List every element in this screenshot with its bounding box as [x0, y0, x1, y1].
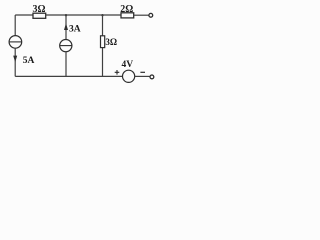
- svg-text:4V: 4V: [121, 60, 133, 70]
- terminal b open circle: [150, 75, 154, 79]
- wire R2 to terminal a: [134, 14, 149, 16]
- wire bottom horizontal: [15, 75, 122, 77]
- resistor R3 3Ω vertical box: [101, 36, 105, 48]
- wire middle branch vertical upper: [65, 15, 67, 40]
- plus sign of US: [115, 70, 120, 75]
- svg-text:3A: 3A: [69, 24, 81, 34]
- node A junction dot: [65, 14, 67, 16]
- wire right branch vertical lower: [102, 48, 104, 77]
- current source IS2 3A circle: [60, 40, 72, 52]
- svg-text:3Ω: 3Ω: [32, 4, 45, 15]
- wire left branch vertical upper: [14, 15, 16, 36]
- arrow IS2 current direction up: [64, 23, 68, 30]
- resistor R1 3Ω horizontal box: [33, 13, 46, 18]
- arrow IS1 current direction down: [13, 56, 17, 63]
- wire node A to node B: [66, 14, 103, 16]
- wire right branch vertical upper: [102, 15, 104, 36]
- terminal a open circle: [149, 13, 153, 17]
- wire from R1 to node A: [46, 14, 66, 16]
- node B junction dot: [101, 14, 103, 16]
- minus sign of US: [140, 71, 145, 73]
- svg-text:2Ω: 2Ω: [120, 4, 133, 15]
- svg-text:3Ω: 3Ω: [105, 37, 117, 47]
- wire US to terminal b: [135, 75, 150, 77]
- wire left branch vertical lower: [14, 48, 16, 76]
- svg-text:5A: 5A: [23, 56, 35, 66]
- voltage source US 4V circle: [123, 70, 135, 82]
- wire middle branch vertical lower: [65, 52, 67, 77]
- wire node B to R2: [103, 14, 122, 16]
- current source IS2 chord: [60, 45, 72, 47]
- current source IS1 5A circle: [9, 36, 22, 49]
- resistor R2 2Ω horizontal box: [121, 13, 134, 18]
- current source IS1 chord: [9, 41, 22, 43]
- wire top-left horizontal segment: [15, 14, 33, 16]
